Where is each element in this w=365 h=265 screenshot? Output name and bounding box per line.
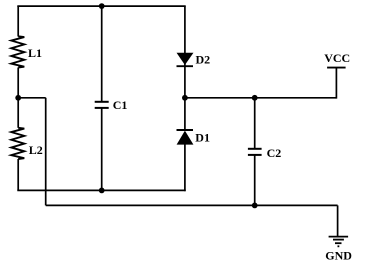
wire VCC down (335, 68, 337, 99)
wire left vertical to L1 (17, 6, 19, 36)
wire diode junction to VCC branch (185, 97, 337, 99)
node C1 bottom (99, 188, 105, 194)
wire D1 bottom (184, 144, 186, 191)
diode D1 (177, 129, 194, 131)
wire D2 to D1 (184, 64, 186, 132)
wire L1 bottom to node (17, 68, 19, 98)
wire mid vertical down (45, 98, 47, 206)
svg-text:VCC: VCC (324, 51, 350, 65)
wire node right (18, 97, 46, 99)
node C2 top (252, 95, 258, 101)
node C1 top (99, 3, 105, 9)
capacitor C1 (95, 101, 109, 103)
wire L2 bottom down (17, 159, 19, 190)
wire C1 top branch (101, 6, 103, 102)
wire diode branch top (184, 6, 186, 53)
capacitor C2 (248, 148, 262, 150)
diode D2 (177, 53, 192, 64)
svg-text:GND: GND (325, 249, 352, 263)
svg-text:L1: L1 (28, 46, 42, 60)
power VCC terminal (327, 67, 346, 69)
inductor L2 (11, 128, 24, 159)
svg-text:D2: D2 (196, 52, 211, 66)
wire top rail (17, 5, 185, 7)
node diode junction (182, 95, 188, 101)
wire C2 top branch (254, 98, 256, 149)
ground (329, 237, 349, 247)
svg-text:C1: C1 (113, 98, 128, 112)
wire ground vertical (337, 205, 339, 236)
node junction L1/L2 (15, 95, 21, 101)
wire C2 bottom branch (254, 155, 256, 206)
svg-text:C2: C2 (267, 146, 282, 160)
wire bottom rail to ground (46, 204, 338, 206)
wire C1 bottom branch (101, 108, 103, 190)
wire node down to L2 (17, 98, 19, 128)
inductor L1 (11, 36, 24, 67)
wire bottom horizontal to diode branch (17, 189, 185, 191)
svg-text:D1: D1 (195, 130, 210, 144)
node C2 bottom (252, 203, 258, 209)
svg-text:L2: L2 (29, 143, 43, 157)
